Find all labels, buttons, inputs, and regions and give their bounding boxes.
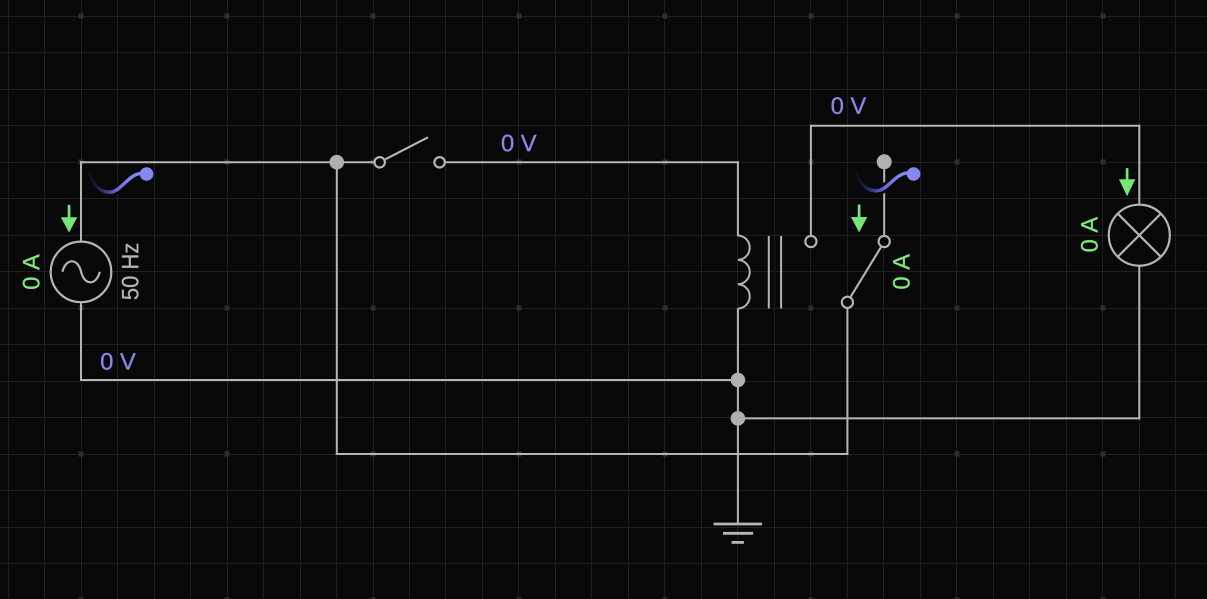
label 0 V (top right wire) [832, 97, 867, 114]
wire lamp bottom lead [1138, 266, 1140, 420]
wire switch S2 stub lead [883, 162, 885, 235]
label 0 A (S2 branch current) [893, 254, 910, 289]
label 0 A (V1 current) [23, 254, 40, 289]
wire inductor bottom lead to ground [737, 308, 739, 524]
current arrow of lamp [1119, 168, 1135, 196]
label 0 A (lamp current) [1081, 217, 1098, 252]
inductor L1 (iron core) [738, 236, 781, 309]
current arrow of S2 branch [851, 204, 867, 232]
ground [714, 524, 763, 542]
wire rail1 horizontal (source bottom to inductor bottom) [80, 379, 738, 381]
junction node B (rail1 / inductor lead) [731, 373, 746, 388]
label 0 V (bottom rail1) [101, 353, 136, 370]
wire inductor top lead [737, 161, 739, 236]
wire source bottom lead [80, 302, 82, 381]
current arrow of V1 [61, 205, 77, 233]
label 50 Hz (value of V1) [122, 244, 139, 299]
node D stub end dot [877, 154, 892, 169]
wire source top lead [80, 161, 82, 242]
junction node A (top wire / drop) [330, 155, 345, 170]
wire lamp top lead [1138, 125, 1140, 205]
wire top left horizontal (source to switch S1) [80, 161, 374, 163]
lamp LP1 [1109, 205, 1170, 266]
wire junction drop vertical [336, 162, 338, 455]
junction node C (rail2 / inductor lead) [731, 411, 746, 426]
wire rail3 bottom horizontal [336, 453, 849, 455]
probe P2 (scope probe on stub wire) [857, 167, 921, 191]
label 0 V (top wire) [502, 135, 537, 152]
wire switch S2 left terminal lead [810, 125, 812, 235]
wire top right horizontal [810, 125, 1140, 127]
switch S2 (SPDT, thrown right) [805, 236, 890, 308]
probe P1 (scope probe on top wire) [90, 167, 154, 192]
AC source V1 [51, 242, 112, 303]
wire switch S2 throw lead vertical [846, 309, 848, 455]
wire rail2 horizontal (inductor to lamp bottom) [738, 417, 1140, 419]
wire top middle horizontal (S1 to inductor) [446, 161, 739, 163]
switch S1 (open SPST) [375, 137, 445, 167]
